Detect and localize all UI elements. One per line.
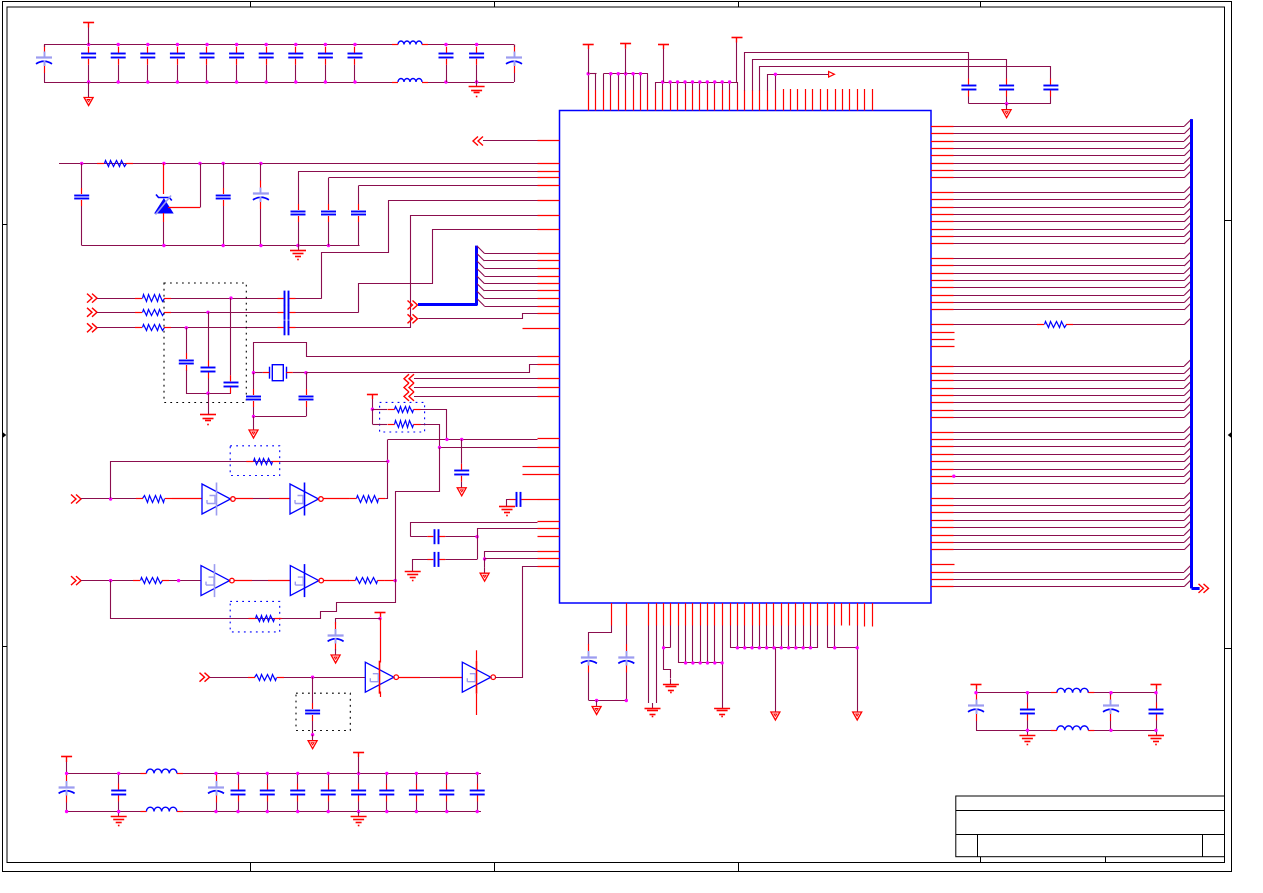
wire bbox=[253, 416, 255, 424]
wire net RX2 bbox=[359, 230, 538, 313]
port P5 bbox=[408, 301, 418, 310]
ic U1 top pins bbox=[589, 89, 873, 111]
capacitor C29 bbox=[454, 464, 469, 482]
ic U1 right pins bbox=[931, 127, 955, 587]
wire bbox=[254, 372, 307, 374]
capacitor C23 series bbox=[278, 320, 296, 335]
capacitor C24 bbox=[179, 353, 194, 371]
junction bbox=[662, 646, 665, 649]
wire bbox=[187, 371, 209, 394]
resistor R6 bbox=[388, 407, 421, 413]
junction bbox=[311, 676, 314, 679]
wire bbox=[329, 178, 538, 205]
wire bank1 bottom rail bbox=[44, 82, 514, 84]
port P12 bbox=[200, 673, 210, 682]
wire bus bbox=[678, 626, 722, 704]
wire bus bbox=[827, 626, 857, 707]
wire bbox=[81, 206, 83, 246]
capacitor C13 bbox=[469, 47, 484, 82]
wire feedback2 bbox=[111, 581, 396, 619]
junctions pi bbox=[974, 691, 1157, 732]
junction bbox=[311, 733, 314, 736]
capacitor C36 bbox=[111, 773, 126, 811]
capacitor C18 bbox=[291, 204, 306, 222]
wire top bus B bbox=[603, 74, 648, 91]
wire pi bottom rail bbox=[976, 730, 1156, 732]
port P4 bbox=[87, 323, 97, 332]
ground GND arrow bbox=[331, 649, 340, 663]
wire bbox=[171, 312, 278, 314]
port P2 bbox=[87, 294, 97, 303]
inductor FB6 bbox=[1051, 726, 1094, 731]
wire bbox=[230, 392, 232, 394]
junction bbox=[109, 579, 112, 582]
wire VR top bbox=[59, 163, 538, 165]
capacitor C31 bbox=[427, 529, 445, 544]
wire bbox=[298, 171, 538, 204]
junction bbox=[252, 415, 255, 418]
wire net up bbox=[396, 448, 440, 581]
ic U1 left pins bbox=[523, 141, 560, 567]
capacitor C16 bbox=[216, 188, 231, 206]
power port VCC1 bbox=[583, 44, 594, 74]
wire feedback1 bbox=[111, 462, 388, 499]
inductor FB5 bbox=[1051, 688, 1094, 692]
capacitor C40 bbox=[1043, 79, 1058, 97]
capacitor C17 polarized bbox=[253, 181, 269, 210]
wire bbox=[81, 498, 136, 500]
capacitor C42 bbox=[618, 644, 634, 673]
junctions port lines bbox=[185, 296, 233, 329]
wire bbox=[419, 314, 538, 319]
port P3 bbox=[87, 308, 97, 317]
wire bbox=[210, 677, 249, 679]
junction bbox=[378, 617, 381, 620]
wire bbox=[589, 673, 627, 701]
ground GND earth bbox=[469, 82, 485, 97]
ground GND arrow bbox=[84, 82, 93, 106]
buffer U2A bbox=[202, 483, 235, 516]
junction bbox=[386, 460, 389, 463]
capacitor C22 series bbox=[278, 305, 296, 320]
wire top bus A bbox=[588, 74, 596, 91]
wire net RX3 bbox=[411, 216, 538, 328]
capacitor C25 bbox=[201, 361, 216, 379]
capacitor C53 bbox=[1020, 693, 1035, 731]
wire top bus C bbox=[655, 82, 737, 90]
wire bbox=[312, 721, 314, 735]
capacitor C54 polarized bbox=[1103, 693, 1119, 731]
resistor R7 bbox=[388, 421, 421, 428]
wire bbox=[260, 209, 262, 246]
wire bank1 top rail bbox=[44, 44, 514, 46]
black dashed box 1 bbox=[164, 283, 246, 403]
wire pi top rail bbox=[976, 692, 1156, 694]
ground GND earth bbox=[1019, 730, 1035, 744]
capacitor C45 bbox=[290, 773, 305, 811]
wire bbox=[284, 677, 365, 679]
capacitor C32 bbox=[427, 552, 445, 567]
junction bbox=[438, 446, 441, 449]
capacitor C38 bbox=[961, 79, 976, 97]
junctions bus B bbox=[609, 72, 642, 75]
port P9 bbox=[404, 392, 414, 401]
ground GND arrow bbox=[1002, 104, 1011, 118]
port P11 bbox=[71, 576, 81, 585]
wire bbox=[97, 298, 136, 300]
wire bbox=[380, 619, 382, 697]
ground GND arrow bbox=[457, 482, 466, 496]
ground GND earth bbox=[351, 812, 367, 826]
resistor R8 bbox=[136, 496, 172, 503]
wire bbox=[359, 186, 538, 205]
wire bbox=[97, 312, 136, 314]
wire bbox=[413, 560, 428, 567]
wire bbox=[328, 222, 330, 246]
junction bbox=[177, 579, 180, 582]
wire bbox=[323, 580, 349, 582]
junction bbox=[483, 557, 486, 560]
wire bbox=[235, 498, 290, 500]
ground GND arrow bbox=[308, 735, 317, 749]
ground GND earth bbox=[200, 410, 216, 425]
wire bbox=[358, 222, 360, 246]
junction bbox=[595, 699, 628, 702]
wire bbox=[208, 379, 231, 394]
inductor FB2 bbox=[392, 79, 428, 83]
power port VCC5 bbox=[83, 23, 94, 45]
capacitor C20 bbox=[351, 204, 366, 222]
wire bbox=[169, 580, 201, 582]
capacitor C6 bbox=[200, 47, 215, 82]
buffer U3B bbox=[290, 564, 323, 597]
wire bbox=[528, 499, 538, 501]
capacitor C30 bbox=[510, 492, 528, 507]
wire net TR3 bbox=[760, 67, 1051, 91]
wire bbox=[421, 425, 440, 448]
wire net A bbox=[388, 439, 538, 441]
capacitor C39 bbox=[999, 79, 1014, 97]
wire bank2 bottom rail bbox=[67, 811, 481, 813]
blue dashed box R6R7 bbox=[380, 402, 425, 432]
junction bbox=[109, 497, 112, 500]
ground GND arrow bbox=[771, 706, 780, 720]
wire bbox=[208, 312, 210, 360]
wire net E bbox=[485, 552, 538, 559]
ground GND earth bbox=[111, 812, 127, 826]
wire bbox=[296, 298, 322, 300]
capacitor C11 bbox=[348, 47, 363, 82]
port P8 bbox=[404, 383, 414, 392]
wire net RX1 bbox=[322, 201, 538, 299]
buffer U2B bbox=[290, 483, 323, 516]
resistor R10 bbox=[349, 496, 385, 503]
resistor R3 bbox=[135, 310, 171, 316]
buffer U4B bbox=[462, 661, 495, 694]
wire bbox=[323, 498, 349, 500]
capacitor C27 bbox=[246, 389, 261, 407]
wire net F bbox=[485, 558, 538, 560]
bus right vertical bbox=[1192, 119, 1200, 588]
crystal Y1 bbox=[263, 365, 293, 381]
capacitor C8 bbox=[259, 47, 274, 82]
wire bbox=[223, 206, 225, 246]
ground GND earth bbox=[663, 679, 679, 693]
wire bbox=[626, 626, 628, 645]
resistor R2 bbox=[135, 295, 171, 302]
capacitor C41 bbox=[581, 644, 597, 673]
ground GND arrow bbox=[249, 424, 258, 438]
junction bbox=[475, 535, 478, 538]
capacitor C10 bbox=[318, 47, 333, 82]
wire bbox=[234, 580, 290, 582]
capacitor C35 polarized bbox=[59, 774, 75, 812]
capacitor C19 bbox=[321, 204, 336, 222]
wire bbox=[81, 580, 134, 582]
ic U1 bbox=[560, 111, 932, 604]
ground GND earth bbox=[1148, 730, 1164, 744]
ground GND earth bbox=[290, 246, 306, 260]
junction bbox=[371, 408, 374, 411]
wire net C bbox=[411, 523, 538, 537]
wire bbox=[260, 164, 262, 182]
ic U1 bottom pins bbox=[612, 603, 873, 627]
wire net TR4 with arrow bbox=[768, 72, 835, 91]
wire net D bbox=[478, 529, 538, 537]
wire bbox=[589, 626, 612, 645]
capacitor C48 bbox=[379, 773, 394, 811]
wire bbox=[384, 580, 395, 582]
wire bbox=[398, 677, 462, 679]
ground GND earth bbox=[499, 501, 515, 515]
wire bbox=[414, 387, 538, 389]
resistor R1 bbox=[97, 161, 133, 167]
wire net TR1 bbox=[745, 53, 969, 91]
port P20 bbox=[1199, 584, 1209, 593]
wire bbox=[171, 327, 278, 329]
junctions bank2 bbox=[65, 772, 479, 814]
wire zener tap bbox=[168, 164, 201, 208]
junction bbox=[394, 579, 397, 582]
power port VCC9 bbox=[353, 752, 364, 773]
ground GND arrow bbox=[592, 701, 601, 715]
power port VCC11 bbox=[1151, 684, 1162, 692]
junctions bbox=[736, 646, 813, 649]
wire bbox=[461, 439, 463, 463]
capacitor C47 bbox=[351, 773, 366, 811]
buffer U3A bbox=[201, 564, 234, 597]
resistor R14 bbox=[249, 616, 282, 622]
capacitor C15 bbox=[74, 188, 89, 206]
ground GND arrow bbox=[853, 706, 862, 720]
port P6 bbox=[408, 314, 418, 323]
ground GND earth bbox=[405, 566, 421, 580]
capacitor C5 bbox=[170, 47, 185, 82]
junctions bank1 bbox=[87, 43, 478, 84]
inductor FB3 bbox=[140, 769, 183, 773]
black dashed box 2 bbox=[296, 693, 350, 730]
diode D1 zener bbox=[155, 164, 173, 246]
capacitor C49 bbox=[409, 773, 424, 811]
capacitor C52 polarized bbox=[968, 693, 984, 731]
wire bbox=[414, 396, 538, 398]
blue dashed box R11 bbox=[230, 446, 280, 476]
wire bbox=[223, 164, 225, 189]
wire bbox=[172, 498, 202, 500]
junctions bbox=[833, 646, 859, 649]
junction bbox=[952, 475, 955, 478]
small cap net bbox=[507, 500, 510, 502]
wire net out3 bbox=[496, 567, 538, 678]
wire bank2 top rail bbox=[67, 773, 481, 775]
wire bbox=[208, 393, 210, 410]
wire bbox=[97, 327, 136, 329]
ground GND earth bbox=[645, 703, 661, 717]
wire bbox=[296, 327, 412, 329]
wire bbox=[483, 140, 538, 142]
title block bbox=[956, 796, 1225, 863]
capacitor C37 polarized bbox=[208, 774, 224, 812]
resistor R12 bbox=[133, 578, 169, 584]
capacitor C51 bbox=[470, 773, 485, 811]
capacitor C3 bbox=[111, 47, 126, 82]
capacitor C1 polarized bbox=[36, 45, 52, 83]
inductor FB4 bbox=[140, 807, 183, 811]
wire bbox=[445, 537, 477, 560]
resistor R15 bbox=[248, 675, 284, 681]
capacitor C21 series bbox=[278, 291, 296, 306]
junction bbox=[206, 392, 209, 395]
capacitor C55 bbox=[1149, 693, 1164, 731]
wire bbox=[253, 373, 255, 389]
capacitor C28 bbox=[299, 389, 314, 407]
capacitor C43 bbox=[231, 773, 246, 811]
power port VCC2 bbox=[620, 44, 631, 74]
junctions bbox=[445, 438, 463, 441]
wire bbox=[296, 312, 359, 314]
ground GND earth bbox=[714, 703, 730, 717]
wire bbox=[186, 328, 188, 353]
resistor R9 bbox=[954, 317, 1192, 327]
capacitor C9 bbox=[288, 47, 303, 82]
wire bbox=[421, 410, 447, 440]
port P1 bbox=[473, 137, 483, 146]
capacitor C26 bbox=[224, 375, 239, 393]
wire net TR2 bbox=[753, 60, 1007, 91]
wire bbox=[306, 373, 308, 389]
power port VCC6 bbox=[367, 394, 378, 409]
wire bbox=[386, 440, 388, 499]
wire bbox=[336, 619, 381, 625]
capacitor C34 bbox=[305, 703, 320, 721]
wire bbox=[312, 677, 314, 703]
wire bbox=[253, 407, 255, 416]
wire bbox=[588, 673, 590, 701]
junction bbox=[587, 72, 590, 75]
wire xtal out bbox=[307, 365, 538, 373]
junction bbox=[1005, 102, 1008, 105]
wire xtal top bbox=[254, 343, 538, 373]
buffer U4A bbox=[365, 661, 398, 694]
capacitor C50 bbox=[439, 773, 454, 811]
wire bbox=[414, 378, 538, 380]
power port VCC8 bbox=[61, 757, 72, 774]
junction bbox=[252, 371, 308, 374]
port P7 bbox=[404, 374, 414, 383]
wire bbox=[484, 559, 486, 567]
capacitor C2 bbox=[81, 47, 96, 82]
wire bbox=[410, 536, 477, 538]
wire net B bbox=[440, 447, 538, 449]
wire bus bbox=[730, 626, 818, 707]
junctions bus C bbox=[661, 80, 731, 83]
wire VR bottom rail bbox=[82, 245, 360, 247]
capacitor C12 bbox=[439, 47, 454, 82]
port P10 bbox=[71, 495, 81, 504]
power port VCC4 bbox=[732, 38, 743, 83]
junctions bbox=[684, 661, 724, 664]
ground GND arrow bbox=[480, 567, 489, 581]
wire bbox=[171, 298, 278, 300]
resistor R13 bbox=[348, 578, 384, 584]
inductor FB1 bbox=[392, 41, 428, 45]
wire bbox=[230, 298, 232, 375]
resistor R11 bbox=[246, 459, 279, 465]
resistor R4 bbox=[135, 325, 171, 331]
capacitor C46 bbox=[321, 773, 336, 811]
junctions VR bbox=[80, 162, 263, 165]
capacitor C4 bbox=[140, 47, 155, 82]
wire cap trio bottom rail bbox=[969, 97, 1051, 104]
capacitor C33 polarized bbox=[328, 622, 344, 651]
bus blue bbox=[418, 246, 477, 306]
capacitor C7 bbox=[229, 47, 244, 82]
wire bbox=[664, 626, 671, 679]
blue dashed box R14 bbox=[230, 601, 280, 632]
capacitor C14 polarized bbox=[506, 45, 522, 83]
power port VCC3 bbox=[658, 44, 669, 82]
wire bbox=[649, 626, 657, 704]
junction bbox=[774, 73, 777, 76]
wires bus fan bbox=[477, 246, 538, 307]
wire bbox=[254, 407, 307, 417]
junctions bbox=[162, 244, 330, 247]
power port VCC7 bbox=[375, 612, 386, 619]
power port VCC10 bbox=[971, 684, 982, 692]
capacitor C44 bbox=[260, 773, 275, 811]
wire bbox=[298, 222, 300, 246]
wire bbox=[372, 409, 387, 424]
wire bbox=[476, 650, 478, 715]
wire bbox=[81, 164, 83, 189]
wires right bus harness bbox=[954, 119, 1192, 586]
